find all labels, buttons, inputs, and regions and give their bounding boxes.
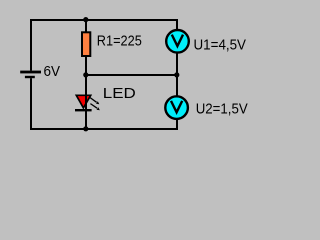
wire bottom horizontal	[30, 128, 178, 130]
voltmeter U2	[165, 96, 188, 119]
wire resistor branch middle (R1 to LED)	[85, 56, 87, 96]
svg-text:LED: LED	[103, 86, 136, 102]
node junction bottom (LED branch / bottom rail)	[83, 126, 88, 131]
wire left vertical lower (battery - to bottom rail)	[30, 78, 32, 130]
wire right vertical middle (U1 to U2)	[176, 53, 178, 96]
voltmeter U1	[166, 30, 189, 53]
svg-text:R1=225: R1=225	[97, 34, 142, 50]
svg-text:U1=4,5V: U1=4,5V	[194, 38, 247, 54]
wire right vertical lower (U2 to bottom rail)	[176, 119, 178, 130]
LED D1	[75, 95, 100, 112]
wire top horizontal (battery + to meters)	[30, 19, 178, 21]
node junction middle right (meter tap on right rail)	[174, 72, 179, 77]
wire middle horizontal (tap to meter junction)	[86, 74, 177, 76]
node junction middle left (R1/LED junction to meters tap)	[83, 72, 88, 77]
battery B1 6V	[20, 71, 41, 79]
svg-text:U2=1,5V: U2=1,5V	[196, 102, 248, 118]
svg-text:6V: 6V	[44, 64, 61, 80]
wire left vertical upper (top rail to battery +)	[30, 19, 32, 71]
node junction top (top rail / R1 branch)	[83, 17, 88, 22]
wire right vertical upper (top rail to U1)	[176, 19, 178, 30]
resistor R1	[82, 32, 90, 56]
wire resistor branch lower (LED to bottom rail)	[85, 111, 87, 129]
wire resistor branch upper (top rail to R1)	[85, 19, 87, 32]
